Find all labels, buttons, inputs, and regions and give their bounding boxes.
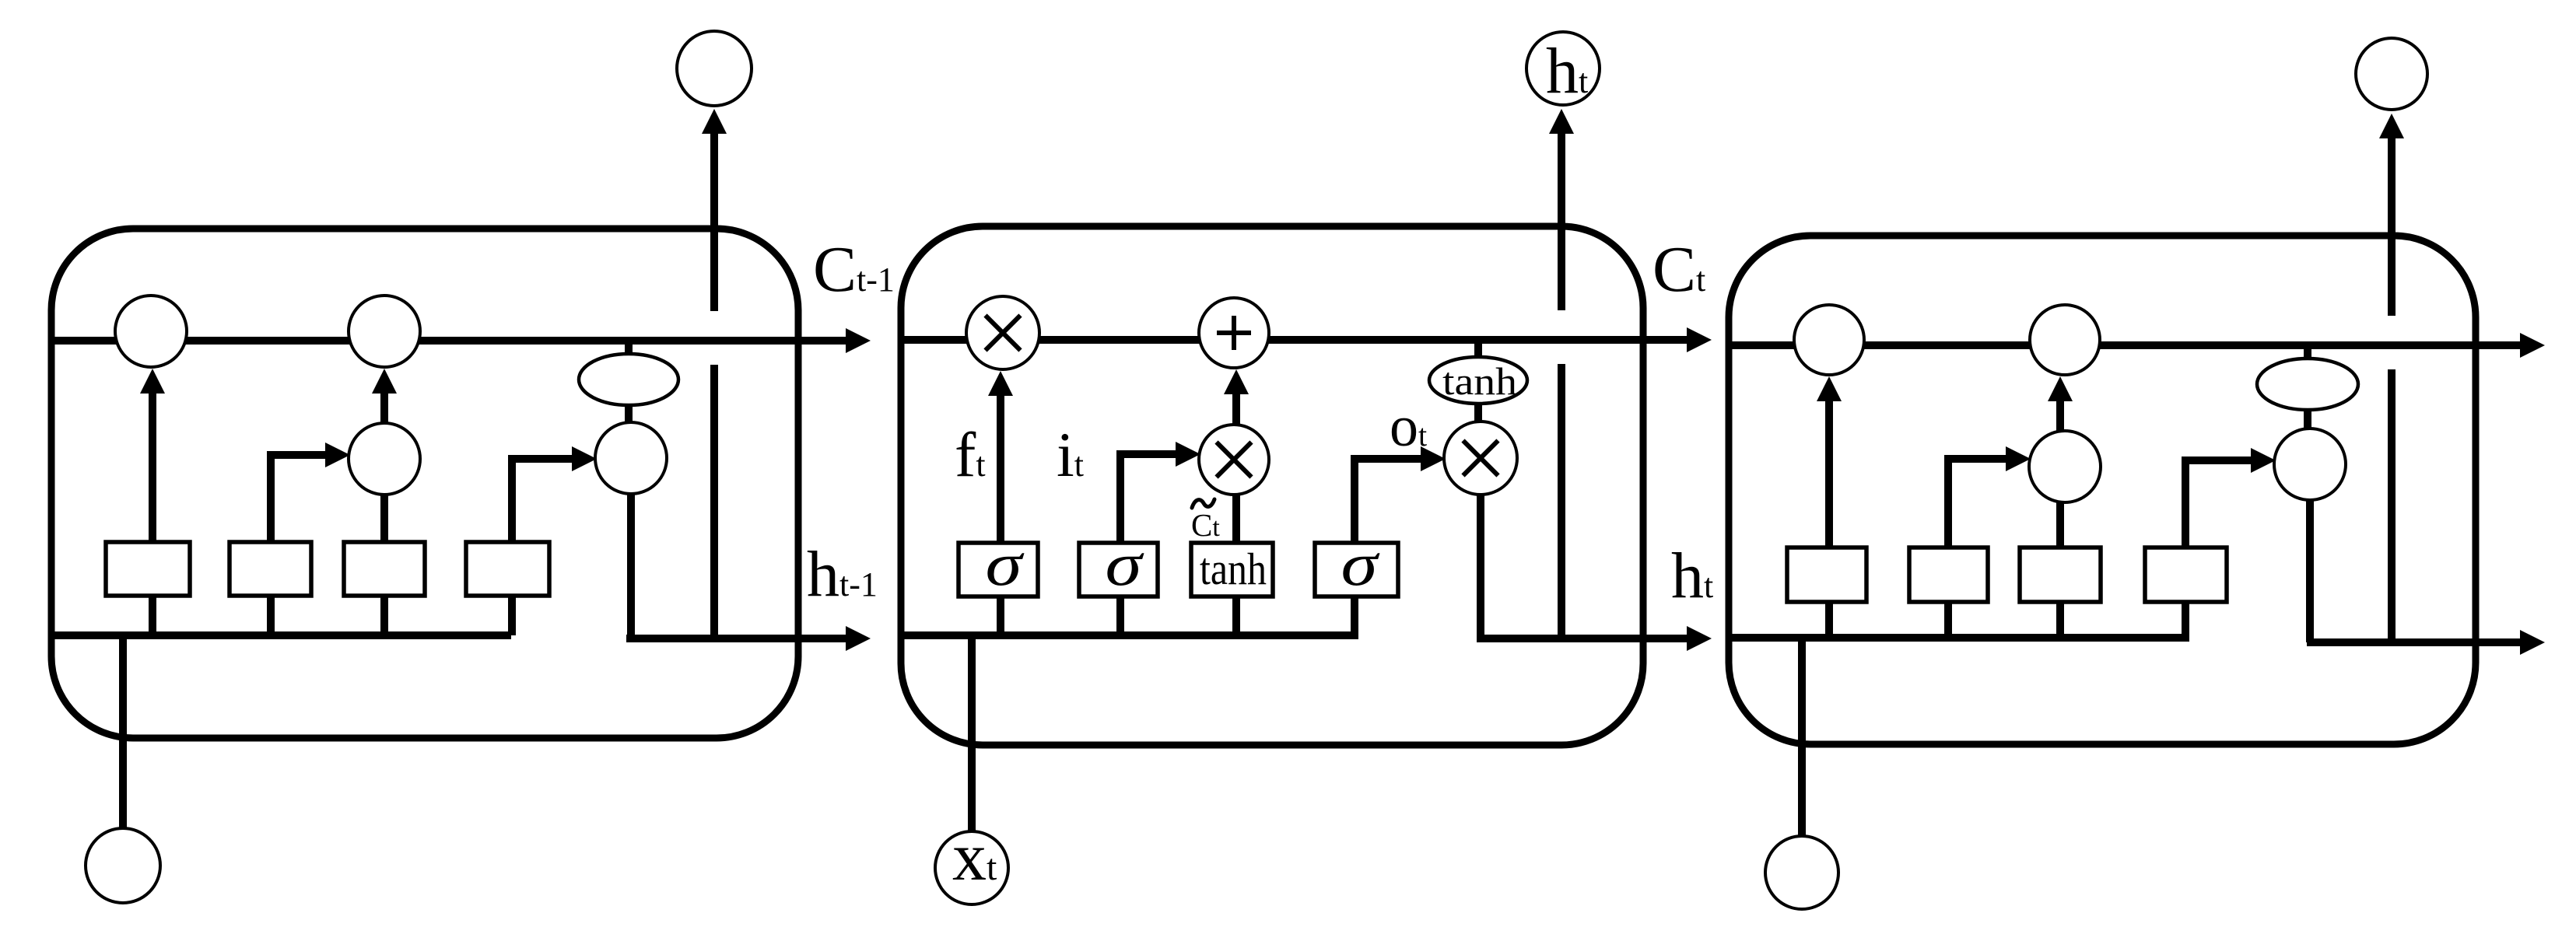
svg-text:tanh: tanh [1200,544,1267,594]
svg-text:tanh: tanh [1442,359,1517,403]
svg-text:σ: σ [1106,531,1145,599]
svg-text:σ: σ [986,531,1025,599]
svg-text:σ: σ [1341,531,1381,599]
